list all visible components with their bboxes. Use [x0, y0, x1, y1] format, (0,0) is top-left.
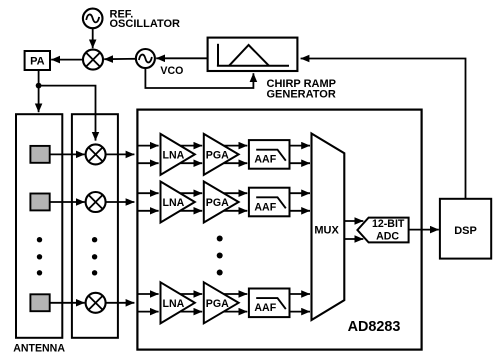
- converter U3 12-BIT ADC (pentagon): [357, 218, 408, 243]
- oscillator VCO (circle with sine): [136, 49, 155, 68]
- wire VCO to mixer M0: [104, 58, 136, 60]
- wire DSP feedback to chirp generator right: [301, 59, 466, 199]
- wire AAF1 to MUX (differential pair): [290, 146, 311, 164]
- wire junction to LO of RX mixers: [39, 86, 96, 141]
- svg-text:PA: PA: [30, 56, 45, 68]
- filter AAF3 (anti-alias filter box): [249, 289, 290, 318]
- wire mixer M0 to PA: [51, 59, 83, 61]
- svg-text:AAF: AAF: [254, 302, 276, 314]
- amplifier LNA1 (triangle): [161, 134, 195, 175]
- wire input pair row 1 (differential pair): [139, 146, 159, 164]
- svg-text:LNA: LNA: [163, 298, 185, 310]
- wire antenna 1 to mixer M1: [50, 153, 85, 155]
- amplifier PGA2 (triangle): [204, 182, 239, 223]
- svg-text:LNA: LNA: [163, 150, 185, 162]
- svg-text:AAF: AAF: [254, 154, 276, 166]
- junction node dot: [36, 83, 42, 89]
- svg-text:ANTENNA: ANTENNA: [13, 342, 65, 354]
- mixer M3 receive (circle with X): [86, 293, 106, 313]
- wire PGA3 to AAF3 (differential pair): [224, 294, 248, 312]
- wire PGA2 to AAF2 (differential pair): [224, 193, 248, 211]
- amplifier PGA1 (triangle): [204, 134, 239, 175]
- filter AAF1 (anti-alias filter box): [249, 140, 290, 169]
- wire antenna 2 to mixer M2: [50, 201, 85, 203]
- wire AAF2 to MUX (differential pair): [290, 193, 311, 211]
- wire input pair row 3 (differential pair): [139, 294, 159, 312]
- wire input pair row 2 (differential pair): [139, 193, 159, 211]
- svg-text:MUX: MUX: [314, 224, 339, 236]
- wire ADC to DSP: [409, 229, 439, 231]
- mixer M1 receive (circle with X): [86, 144, 106, 164]
- svg-text:OSCILLATOR: OSCILLATOR: [110, 18, 181, 30]
- ramp waveform symbol: [217, 44, 289, 66]
- mixer column box: [72, 114, 118, 338]
- wire mixer M1 to AD8283 input: [106, 153, 135, 155]
- svg-text:LNA: LNA: [163, 197, 185, 209]
- filter AAF2 (anti-alias filter box): [249, 188, 290, 217]
- antenna element 1 (gray square): [30, 146, 49, 163]
- wire LNA3 to PGA3 (differential pair): [180, 294, 202, 312]
- antenna element 2 (gray square): [30, 194, 49, 211]
- svg-text:VCO: VCO: [160, 65, 183, 77]
- svg-text:DSP: DSP: [454, 225, 477, 237]
- dots antenna column (vertical ellipsis dots): [37, 237, 42, 275]
- amplifier PA (box): [25, 51, 50, 70]
- wire mixer M2 to AD8283 input: [106, 201, 135, 203]
- wire antenna 3 to mixer M3: [50, 302, 85, 304]
- amplifier LNA2 (triangle): [161, 182, 195, 223]
- antenna array box: [16, 114, 62, 338]
- antenna element 3 (gray square): [30, 294, 49, 311]
- amplifier LNA3 (triangle): [161, 282, 195, 323]
- chip box U2 AD8283: [137, 110, 421, 350]
- wire LNA1 to PGA1 (differential pair): [180, 146, 202, 164]
- svg-text:PGA: PGA: [206, 197, 229, 209]
- processor DSP box: [440, 199, 491, 259]
- svg-text:AD8283: AD8283: [348, 319, 401, 335]
- amplifier PGA3 (triangle): [204, 282, 239, 323]
- wire VCO feedback to chirp generator bottom: [145, 68, 253, 88]
- wire mixer M3 to AD8283 input: [106, 302, 135, 304]
- multiplexer MUX (trapezoid): [312, 134, 345, 321]
- wire MUX to ADC (pair): [344, 221, 363, 239]
- wire AAF3 to MUX (differential pair): [290, 294, 311, 312]
- svg-text:GENERATOR: GENERATOR: [267, 88, 336, 100]
- wire oscillator to mixer M0: [92, 28, 94, 48]
- mixer M0 transmit (circle with X): [83, 50, 103, 70]
- label CHIRP RAMP GENERATOR: [267, 78, 336, 100]
- svg-text:AAF: AAF: [254, 201, 276, 213]
- dots channel rows (vertical ellipsis dots): [217, 236, 223, 276]
- svg-text:PGA: PGA: [206, 298, 229, 310]
- dots mixer column (vertical ellipsis dots): [92, 237, 97, 275]
- wire PGA1 to AAF1 (differential pair): [224, 146, 248, 164]
- svg-text:ADC: ADC: [376, 231, 399, 243]
- svg-text:PGA: PGA: [206, 150, 229, 162]
- label REF. OSCILLATOR: [110, 8, 181, 30]
- wire LNA2 to PGA2 (differential pair): [180, 193, 202, 211]
- wire chirp generator to VCO: [156, 57, 207, 59]
- wire PA to antenna column: [38, 70, 40, 112]
- generator box U1 CHIRP RAMP GENERATOR: [208, 38, 298, 71]
- mixer M2 receive (circle with X): [86, 192, 106, 212]
- oscillator REF (circle with sine): [83, 9, 103, 29]
- svg-text:12-BIT: 12-BIT: [372, 218, 405, 230]
